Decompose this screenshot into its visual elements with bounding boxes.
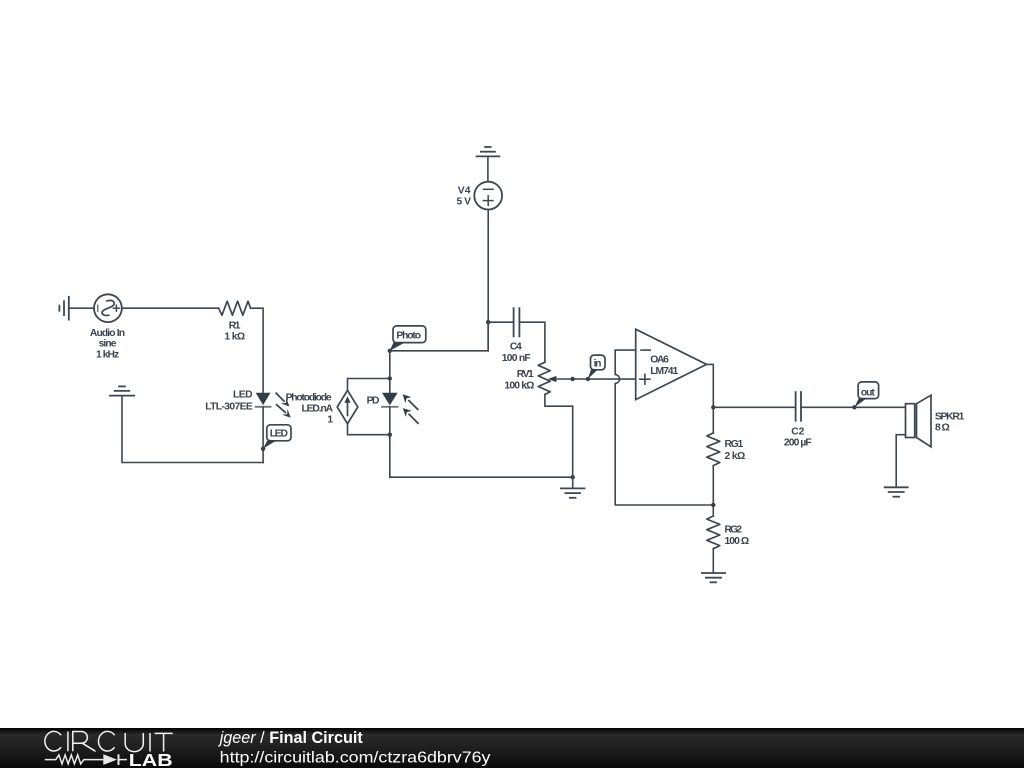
resistor RG1 2 kOhm: [707, 433, 720, 466]
svg-text:LAB: LAB: [129, 750, 173, 768]
svg-text:sine: sine: [99, 339, 117, 350]
wire PD down: [389, 407, 391, 477]
voltage source V4 5V: [474, 182, 502, 210]
node Photo: [388, 349, 392, 353]
photodiode PD: [382, 393, 418, 423]
svg-text:Photo: Photo: [396, 331, 421, 342]
svg-text:2 kΩ: 2 kΩ: [725, 451, 746, 462]
wire RV1 bottom to ground node: [545, 395, 573, 478]
svg-text:R1: R1: [229, 320, 241, 331]
ground (inverted, under Audio In): [110, 386, 134, 395]
ground (rotated, left of Audio In source): [59, 297, 68, 320]
wire ground to source: [69, 307, 94, 309]
wire V4 down to node: [487, 210, 489, 323]
resistor RG2 100 Ohm: [707, 516, 720, 549]
op-amp OA6 LM741: [636, 329, 707, 399]
wire node to ground: [572, 477, 574, 488]
node ground junction: [571, 475, 575, 479]
ground (inverted, above V4): [477, 147, 500, 156]
svg-text:Photodiode: Photodiode: [286, 392, 332, 403]
svg-text:http://circuitlab.com/ctzra6db: http://circuitlab.com/ctzra6dbrv76y: [220, 750, 491, 767]
wire speaker second terminal to ground: [896, 435, 905, 488]
LED "LED" LTL-307EE: [256, 393, 291, 418]
svg-text:200 µF: 200 µF: [784, 437, 812, 448]
svg-text:LTL-307EE: LTL-307EE: [205, 401, 253, 412]
node diamond bottom: [388, 433, 392, 437]
capacitor C4 100 nF: [514, 308, 520, 336]
svg-text:100 kΩ: 100 kΩ: [504, 381, 534, 392]
svg-text:C2: C2: [791, 427, 804, 438]
flag in: [588, 355, 605, 379]
wire bottom LED loop: [122, 396, 263, 463]
wire diamond top: [348, 379, 390, 391]
flag Photo: [390, 326, 426, 351]
flag out: [855, 382, 879, 407]
ground (below speaker): [885, 487, 908, 496]
ground (below RG2): [702, 573, 725, 582]
svg-text:LED.nA: LED.nA: [302, 404, 334, 415]
svg-text:100 nF: 100 nF: [502, 353, 531, 364]
svg-text:out: out: [861, 387, 875, 398]
svg-text:C4: C4: [510, 342, 522, 353]
current source LED.nA (diamond): [337, 390, 358, 423]
wire source to R1: [122, 307, 219, 309]
node out flag attach: [852, 405, 856, 409]
CircuitLab logo squiggle (resistor + diode): [45, 754, 127, 765]
svg-text:LED: LED: [270, 429, 288, 440]
node feedback junction: [711, 503, 715, 507]
svg-text:1 kHz: 1 kHz: [96, 349, 119, 360]
wire C2 to speaker: [801, 406, 906, 408]
svg-text:OA6: OA6: [650, 355, 669, 366]
wire Photo node down to photodiode: [389, 351, 391, 393]
wire Photo node to V4 branch: [390, 322, 488, 351]
node V4/C4: [486, 320, 490, 324]
wire node to C4: [488, 321, 513, 323]
svg-text:1: 1: [327, 415, 333, 426]
ground (bottom center): [561, 488, 585, 497]
wire RG1 to RG2: [712, 466, 714, 516]
wire LED to bottom: [262, 407, 264, 463]
svg-text:1 kΩ: 1 kΩ: [224, 332, 245, 343]
voltage source "Audio In" V sine: [94, 294, 122, 322]
svg-text:jgeer / Final Circuit: jgeer / Final Circuit: [218, 729, 364, 747]
potentiometer RV1 100 kOhm: [538, 362, 550, 394]
bottom bar: [0, 728, 1024, 768]
wire C4 to RV1: [519, 322, 545, 362]
svg-text:Audio In: Audio In: [90, 328, 125, 339]
wire feedback: output node to - input, with hop over + wire: [615, 350, 713, 505]
wire PD bottom to ground: [390, 476, 573, 478]
wire diamond bottom: [348, 424, 390, 435]
node output/C2: [711, 405, 715, 409]
node wiper wire: [570, 377, 574, 381]
svg-text:LM741: LM741: [650, 366, 678, 377]
node in flag attach: [586, 377, 590, 381]
svg-text:SPKR1: SPKR1: [935, 412, 965, 423]
resistor R1 1 kOhm: [219, 301, 251, 315]
wire ground to V4: [487, 156, 489, 181]
wire R1 to LED: [251, 308, 264, 393]
svg-text:8 Ω: 8 Ω: [935, 423, 950, 434]
capacitor C2 200 uF: [796, 392, 801, 421]
node diamond top: [388, 376, 392, 380]
node LED flag attach: [261, 447, 265, 451]
wire node down to photo wire: [487, 322, 489, 351]
svg-text:RG1: RG1: [725, 439, 744, 450]
flag LED: [263, 425, 291, 449]
svg-text:in: in: [594, 358, 602, 369]
svg-text:RG2: RG2: [725, 524, 743, 535]
svg-text:5 V: 5 V: [457, 196, 472, 207]
CircuitLab logo word CIRCUIT (thin strokes): [45, 731, 173, 751]
wire op-amp output: [707, 364, 714, 433]
svg-text:LED: LED: [233, 389, 253, 400]
wire RG2 to ground: [712, 549, 714, 573]
svg-text:PD: PD: [367, 395, 380, 406]
svg-text:100 Ω: 100 Ω: [725, 536, 750, 547]
RV1 wiper arrow: [548, 376, 557, 382]
speaker SPKR1 8 Ohm: [906, 395, 932, 447]
wire output node to C2: [713, 406, 795, 408]
svg-text:V4: V4: [458, 186, 471, 197]
wire wiper to op-amp + input: [556, 378, 636, 380]
svg-text:RV1: RV1: [517, 369, 534, 380]
